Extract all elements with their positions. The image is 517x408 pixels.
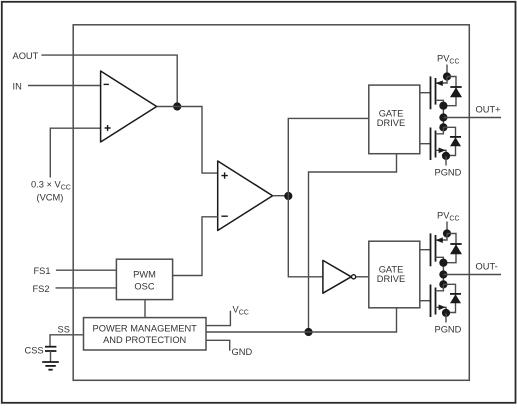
net VCC stub label <box>206 311 230 326</box>
wire high-side drain lead <box>436 100 444 105</box>
wire PGND stub <box>445 313 447 323</box>
node output junction dot <box>439 270 447 278</box>
wire low-side drain lead <box>436 127 444 134</box>
wire low-side source lead to PGND <box>436 150 447 156</box>
wire low-side body-diode branch <box>443 127 455 155</box>
node PVCC junction dot <box>443 72 451 80</box>
node drain junction dot <box>439 259 447 267</box>
wire PVCC stub <box>446 222 448 234</box>
block upper GATE DRIVE <box>369 85 420 154</box>
node PGND junction dot <box>442 309 450 317</box>
wire FS1 <box>56 269 117 271</box>
transistor low-side source arrow <box>439 148 446 154</box>
svg-text:POWER MANAGEMENT: POWER MANAGEMENT <box>93 323 198 333</box>
node PM line junction dot <box>304 328 312 336</box>
transistor low-side MOSFET channel bar <box>435 131 437 158</box>
diode high-side body diode <box>450 244 462 254</box>
wire comparator output <box>273 195 289 197</box>
diode high-side body diode <box>450 87 462 97</box>
wire OUT+ output line <box>443 117 501 119</box>
transistor low-side MOSFET gate bar <box>430 285 432 318</box>
block POWER MANAGEMENT AND PROTECTION <box>84 318 207 350</box>
wire PWM OSC output to comparator inverting input <box>173 217 218 276</box>
transistor high-side MOSFET channel bar <box>435 235 437 262</box>
diode low-side body diode <box>450 294 461 303</box>
svg-text:GATE: GATE <box>379 108 404 118</box>
wire high-side source lead to PVCC <box>436 234 447 241</box>
wire mid node vertical <box>442 106 444 128</box>
wire high-side source lead to PVCC <box>436 77 447 84</box>
svg-text:DRIVE: DRIVE <box>377 274 405 284</box>
wire power management to lower gate drive <box>206 308 397 332</box>
svg-text:DRIVE: DRIVE <box>377 118 405 128</box>
wire gate lead low-side <box>420 143 431 145</box>
net GND stub label <box>206 340 230 350</box>
wire high-side drain lead <box>436 257 444 262</box>
wire mid node vertical <box>442 263 444 285</box>
wire OUT- output line <box>443 274 501 276</box>
wire op-amp output to comparator non-inverting input <box>157 107 218 174</box>
wire capacitor to ground <box>50 351 52 362</box>
transistor high-side MOSFET gate bar <box>430 233 432 266</box>
transistor low-side MOSFET gate bar <box>430 128 432 161</box>
svg-text:AND PROTECTION: AND PROTECTION <box>103 335 186 345</box>
transistor low-side MOSFET channel bar <box>435 288 437 315</box>
svg-text:SS: SS <box>58 324 70 334</box>
svg-text:PWM: PWM <box>133 270 156 280</box>
node PGND junction dot <box>442 152 450 160</box>
svg-text:GATE: GATE <box>379 264 404 274</box>
wire PWM OSC to power management <box>144 300 146 318</box>
node low-side drain junction dot <box>439 280 447 288</box>
svg-text:CSS: CSS <box>25 346 44 356</box>
svg-text:IN: IN <box>13 81 22 91</box>
inverter U3 <box>323 260 356 293</box>
svg-text:OUT-: OUT- <box>476 261 498 271</box>
svg-text:PGND: PGND <box>435 325 462 335</box>
node op-amp output junction dot <box>173 102 181 110</box>
transistor low-side source arrow <box>439 305 446 311</box>
wire SS to power management <box>50 335 84 347</box>
wire inverter output to lower gate drive <box>356 276 369 278</box>
wire low-side drain lead <box>436 284 444 291</box>
node low-side drain junction dot <box>439 123 447 131</box>
wire to inverter input <box>288 196 323 277</box>
IC boundary rectangle <box>73 25 469 381</box>
wire upper gate-drive bottom to PM line <box>309 154 397 332</box>
svg-text:(VCM): (VCM) <box>37 193 64 203</box>
wire gate lead high-side <box>420 92 431 94</box>
wire low-side body-diode branch <box>443 284 455 312</box>
wire gate lead low-side <box>420 300 431 302</box>
svg-text:AOUT: AOUT <box>13 51 39 61</box>
wire high-side body-diode branch <box>443 234 456 263</box>
node comparator output junction dot <box>284 192 292 200</box>
wire IN to op-amp inverting input <box>28 85 101 87</box>
wire gate lead high-side <box>420 249 431 251</box>
svg-text:OSC: OSC <box>134 282 154 292</box>
svg-text:PGND: PGND <box>435 168 462 178</box>
node output junction dot <box>439 113 447 121</box>
wire FS2 <box>56 287 117 289</box>
transistor high-side MOSFET gate bar <box>430 76 432 109</box>
svg-text:FS2: FS2 <box>33 284 50 294</box>
block lower GATE DRIVE <box>369 241 420 308</box>
wire low-side source lead to PGND <box>436 307 447 313</box>
svg-text:GND: GND <box>232 347 253 357</box>
wire VCM reference to op-amp non-inverting input <box>50 128 100 177</box>
transistor high-side source arrow <box>436 237 443 243</box>
node drain junction dot <box>439 102 447 110</box>
wire AOUT to op-amp output node <box>41 55 177 106</box>
svg-text:OUT+: OUT+ <box>476 104 501 114</box>
diode low-side body diode <box>450 137 461 146</box>
wire PGND stub <box>445 156 447 166</box>
svg-text:FS1: FS1 <box>34 266 51 276</box>
capacitor CSS <box>45 347 56 351</box>
wire high-side body-diode branch <box>443 77 456 106</box>
op-amp U1 <box>101 71 157 142</box>
block PWM OSC <box>116 259 172 299</box>
node PVCC junction dot <box>443 229 451 237</box>
wire PVCC stub <box>446 65 448 77</box>
transistor high-side source arrow <box>436 80 443 86</box>
comparator U2 <box>218 161 273 231</box>
wire to upper gate drive input <box>288 118 369 196</box>
transistor high-side MOSFET channel bar <box>435 78 437 105</box>
ground symbol <box>42 362 59 370</box>
